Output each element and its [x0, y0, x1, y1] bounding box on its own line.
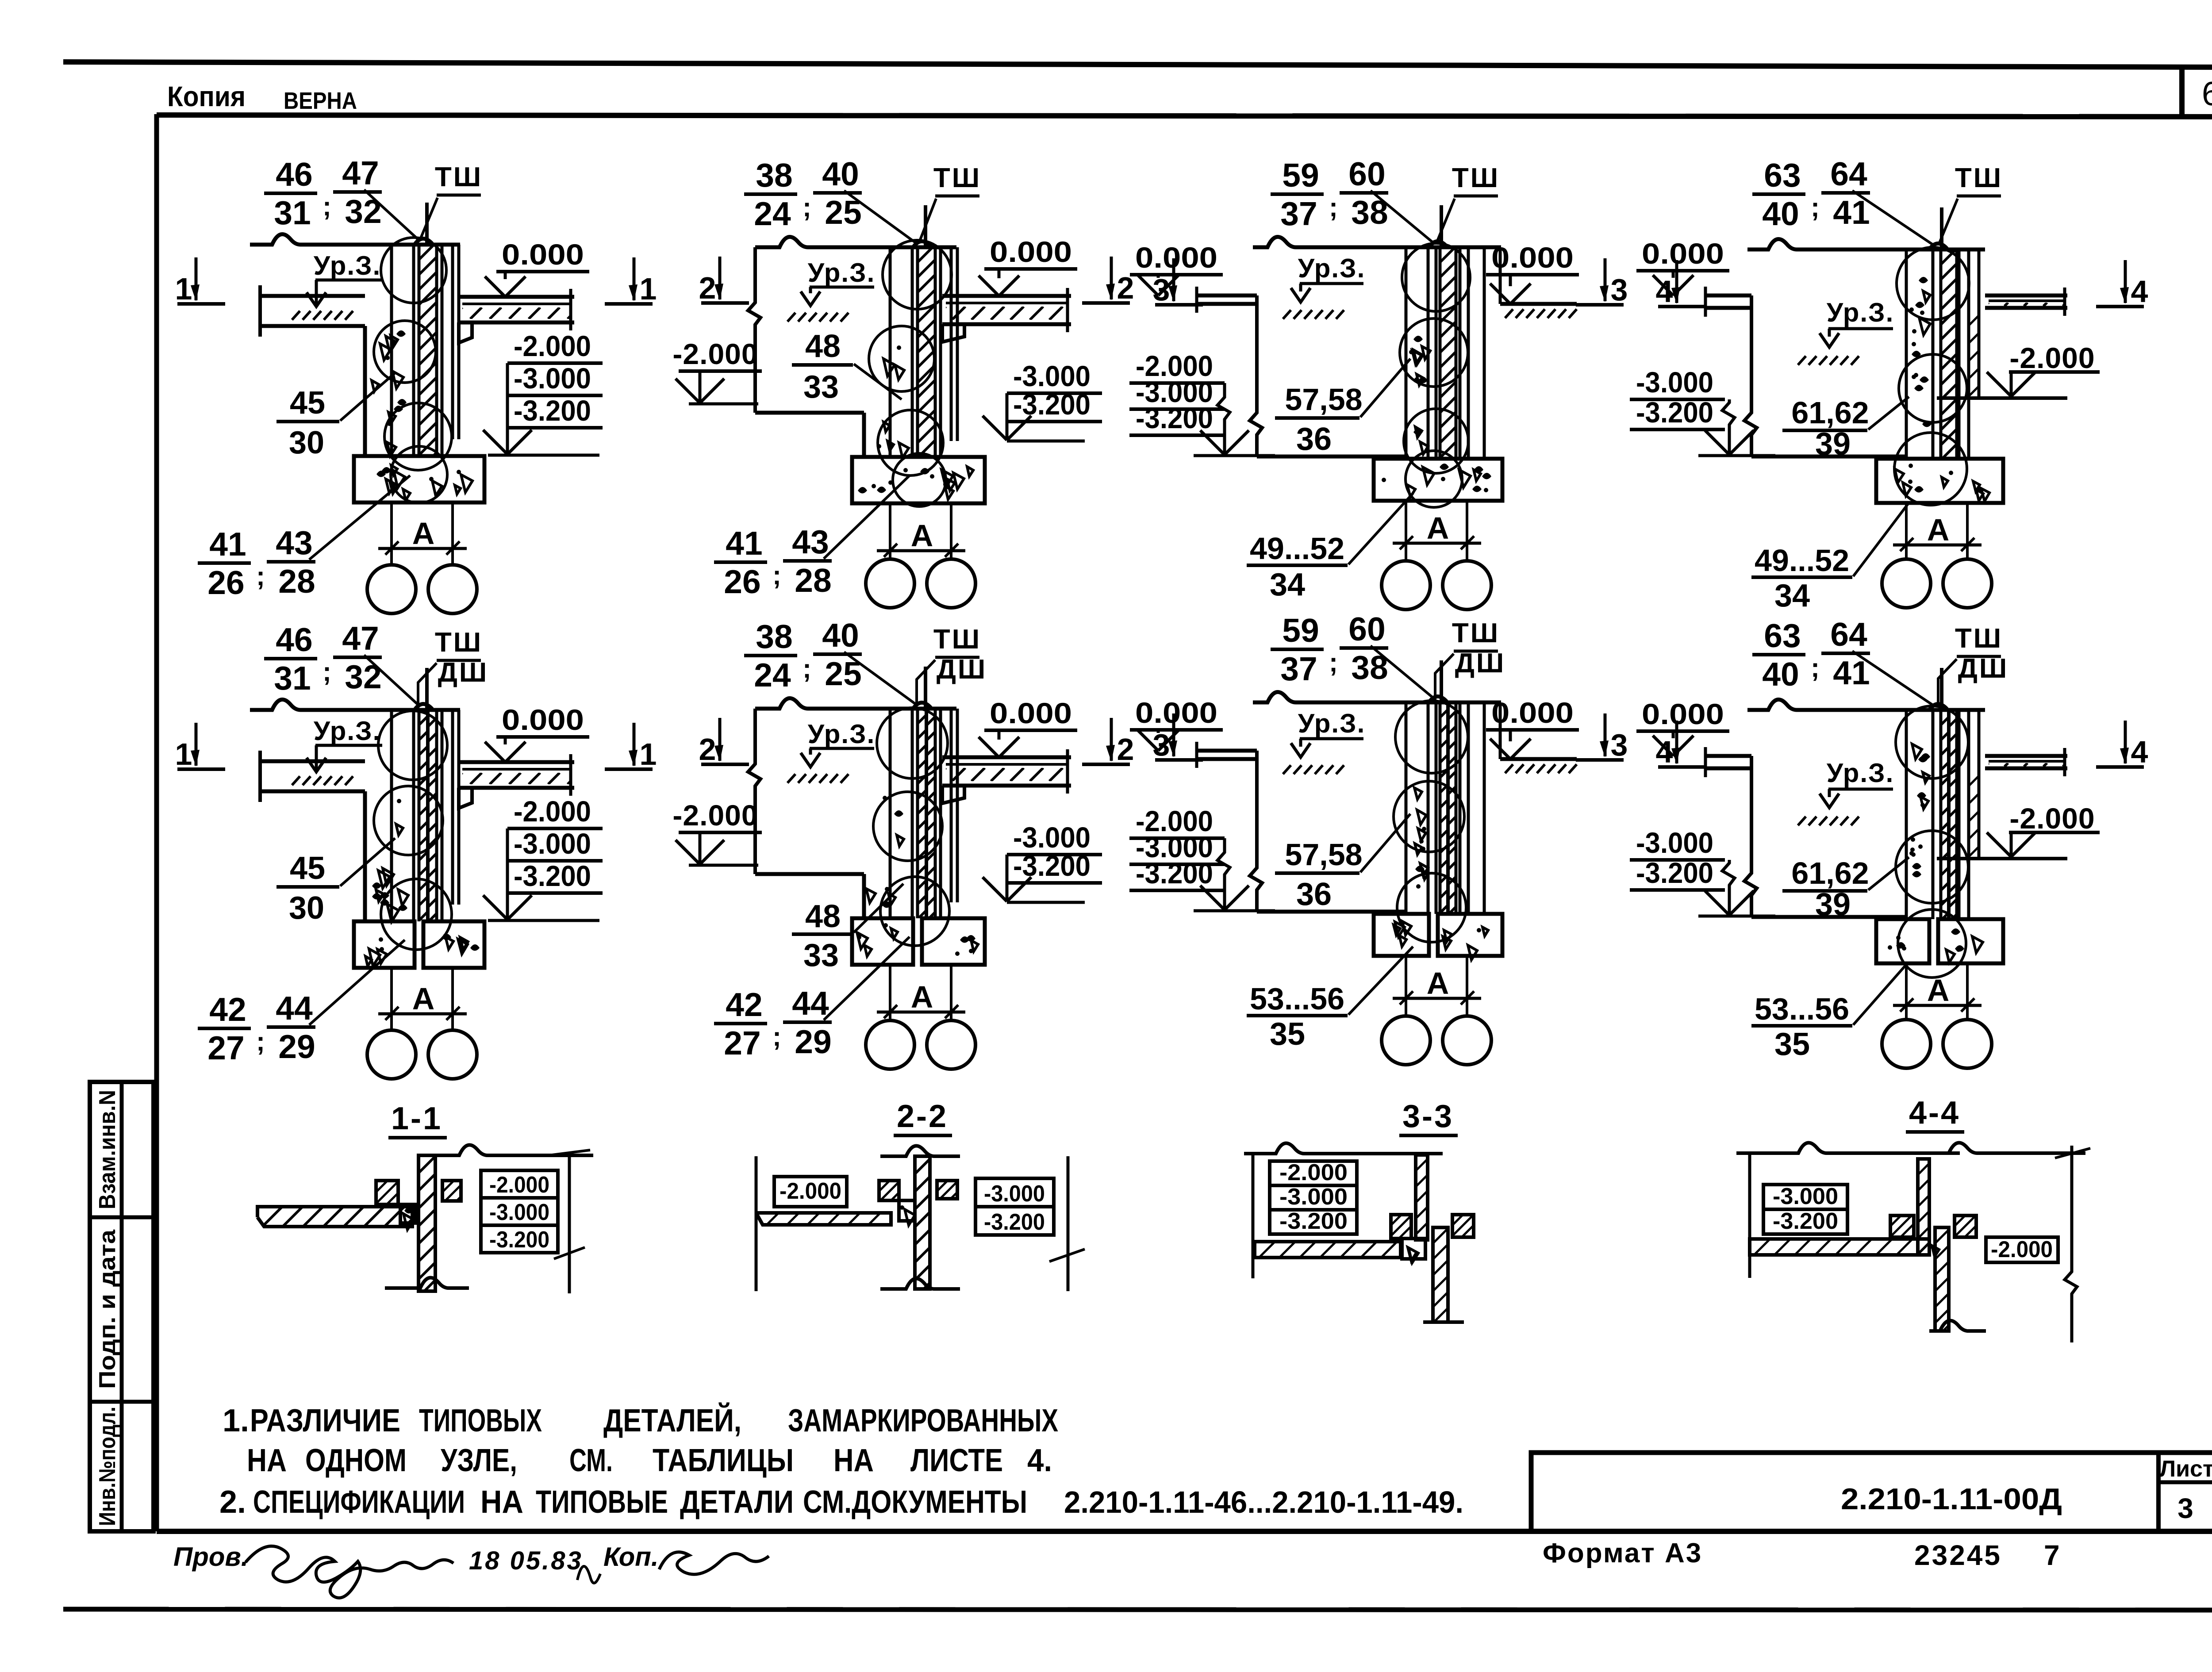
axis bubble left [1382, 561, 1430, 610]
svg-text:26: 26 [207, 564, 244, 601]
inner frame left [154, 114, 159, 1531]
svg-text:2: 2 [699, 271, 716, 305]
svg-text:Копия: Копия [167, 81, 246, 112]
footing block [354, 921, 415, 968]
right floor slab [459, 760, 574, 764]
svg-text:46: 46 [276, 156, 312, 193]
detail bubbles [1897, 247, 1969, 320]
svg-text:Формат А3: Формат А3 [1543, 1538, 1702, 1568]
svg-text:Инв.№подл.: Инв.№подл. [95, 1407, 120, 1526]
svg-text:Ур.З.: Ур.З. [314, 716, 381, 746]
axis bubble right [1943, 1020, 1992, 1068]
wall panel lines [390, 245, 393, 456]
right ground line [1500, 757, 1577, 761]
svg-text:ТШ: ТШ [1452, 618, 1500, 648]
svg-text:60: 60 [1348, 610, 1385, 648]
right ground line [1500, 302, 1577, 306]
svg-text:;: ; [772, 560, 781, 590]
svg-text:53...56: 53...56 [1250, 982, 1344, 1016]
svg-text:ТИПОВЫЕ: ТИПОВЫЕ [536, 1484, 668, 1520]
right floor slab [1985, 754, 2067, 758]
dimension A line [1393, 542, 1481, 545]
svg-text:А: А [1427, 966, 1449, 1001]
svg-text:-2.000: -2.000 [780, 1178, 841, 1204]
svg-text:2-2: 2-2 [897, 1099, 948, 1134]
svg-text:49...52: 49...52 [1755, 543, 1849, 578]
slab bar [1750, 1239, 1929, 1255]
svg-text:59: 59 [1282, 612, 1319, 649]
svg-text:4: 4 [2131, 274, 2148, 309]
svg-text:24: 24 [754, 656, 791, 694]
dimension A line [877, 1011, 965, 1014]
detail bubbles [381, 238, 446, 303]
svg-text:40: 40 [1762, 195, 1799, 232]
left basement box [1250, 295, 1262, 456]
detail bubbles [877, 708, 948, 778]
footing block [852, 918, 913, 965]
svg-text:Ур.З.: Ур.З. [314, 251, 381, 280]
axis bubble right [428, 1030, 477, 1079]
svg-text:0.000: 0.000 [1642, 698, 1724, 730]
svg-text:45: 45 [290, 851, 325, 886]
svg-text:-2.000: -2.000 [672, 799, 758, 832]
svg-text:0.000: 0.000 [502, 703, 584, 736]
svg-text:А: А [911, 518, 933, 553]
svg-text:-3.000: -3.000 [1013, 821, 1091, 854]
node: top break line [1747, 699, 1985, 710]
ground hatch [292, 776, 300, 785]
axis line right [1966, 503, 1969, 560]
svg-text:ТШ: ТШ [1955, 163, 2003, 193]
svg-text:32: 32 [345, 193, 381, 230]
svg-text:0.000: 0.000 [502, 238, 584, 271]
svg-text:1: 1 [640, 737, 657, 771]
leader line [418, 663, 437, 708]
footing block [1876, 919, 1929, 963]
svg-text:39: 39 [1815, 426, 1851, 462]
left thin slab [1705, 754, 1751, 758]
detail bubbles [883, 240, 952, 309]
leader line [917, 660, 935, 706]
svg-text:СПЕЦИФИКАЦИИ: СПЕЦИФИКАЦИИ [253, 1484, 465, 1520]
section 1-1 top wall break [419, 1145, 593, 1155]
wall hatched leaf [916, 709, 919, 918]
svg-text:-3.200: -3.200 [1636, 856, 1713, 889]
axis line left [1905, 963, 1908, 1020]
svg-text:27: 27 [724, 1024, 760, 1062]
concrete basement wall [1416, 884, 1421, 889]
svg-text:ДШ: ДШ [1958, 653, 2008, 684]
wall hatched leaf [1439, 702, 1442, 914]
svg-text:;: ; [803, 192, 811, 222]
svg-text:3-3: 3-3 [1402, 1099, 1454, 1134]
svg-text:41: 41 [209, 525, 246, 563]
svg-text:64: 64 [1830, 155, 1867, 192]
footing block [354, 456, 484, 502]
svg-text:ДЕТАЛЕЙ,: ДЕТАЛЕЙ, [603, 1402, 741, 1438]
axis line right [451, 968, 454, 1031]
section marks [1675, 721, 1678, 763]
level -2.000 line right [1937, 857, 2067, 860]
leader line [1437, 199, 1455, 242]
left floor band [260, 294, 365, 298]
leader line [1853, 504, 1908, 576]
svg-text:Ур.З.: Ур.З. [1298, 253, 1366, 283]
leader line [1360, 359, 1410, 417]
svg-text:48: 48 [805, 329, 841, 364]
left basement box [748, 247, 760, 413]
left thin slab [1705, 294, 1751, 298]
deformation joint gap [426, 710, 428, 921]
detail bubbles [1395, 701, 1468, 773]
wall panel lines [889, 247, 892, 457]
svg-text:-2.000: -2.000 [1279, 1160, 1348, 1185]
svg-text:-3.200: -3.200 [1013, 388, 1091, 421]
svg-text:-3.200: -3.200 [984, 1209, 1045, 1235]
wall panel lines [889, 709, 892, 918]
svg-text:45: 45 [290, 385, 325, 421]
svg-text:27: 27 [207, 1029, 244, 1066]
svg-text:;: ; [256, 1027, 265, 1056]
wall strip [880, 1146, 960, 1156]
dimension A line [378, 1012, 467, 1016]
svg-text:7: 7 [2044, 1539, 2060, 1571]
joint sealant cap [1429, 696, 1447, 702]
svg-text:34: 34 [1270, 567, 1305, 602]
svg-text:-3.000: -3.000 [514, 827, 591, 860]
corbel [942, 324, 964, 342]
svg-text:;: ; [772, 1022, 781, 1051]
leader line [1868, 857, 1909, 890]
page number box divider [2179, 65, 2185, 117]
ground hatch [292, 311, 300, 320]
left floor band [260, 759, 365, 763]
svg-text:А: А [1427, 511, 1449, 545]
grout square [400, 1204, 415, 1223]
svg-text:4: 4 [1656, 274, 1673, 309]
axis bubble left [367, 1030, 416, 1079]
-2.000 box [1986, 1237, 2058, 1262]
svg-text:Ур.З.: Ур.З. [1827, 758, 1894, 788]
top line with bumps [1736, 1143, 1960, 1153]
svg-text:Ур.З.: Ур.З. [808, 719, 876, 749]
svg-text:ТШ: ТШ [435, 162, 483, 192]
svg-text:Подп. и дата: Подп. и дата [95, 1229, 120, 1389]
leader line [1435, 654, 1454, 700]
corbel [459, 322, 472, 343]
svg-text:;: ; [323, 657, 331, 686]
leader line [824, 476, 910, 559]
svg-text:-3.000: -3.000 [1279, 1184, 1348, 1210]
svg-text:ТШ: ТШ [1955, 623, 2003, 654]
svg-text:ЛИСТЕ: ЛИСТЕ [910, 1443, 1003, 1478]
node: top break line [755, 698, 956, 709]
leader line [1371, 191, 1433, 243]
right dim line [568, 1152, 571, 1293]
svg-text:-3.200: -3.200 [514, 859, 591, 892]
svg-text:35: 35 [1774, 1027, 1810, 1062]
wall hatched leaf [418, 245, 421, 456]
node: top break line [1253, 692, 1501, 702]
left basement box [1744, 756, 1757, 917]
svg-text:-2.000: -2.000 [672, 337, 758, 370]
axis line right [1466, 956, 1468, 1016]
svg-text:44: 44 [792, 985, 829, 1022]
svg-text:НА: НА [833, 1443, 874, 1478]
concrete basement wall [1918, 844, 1923, 849]
svg-text:ТШ: ТШ [435, 627, 483, 658]
svg-text:;: ; [1329, 648, 1338, 677]
deformation joint gap [1947, 710, 1949, 919]
section marks [1172, 258, 1175, 301]
svg-text:ТШ: ТШ [933, 163, 981, 193]
svg-text:37: 37 [1280, 195, 1317, 232]
svg-text:-2.000: -2.000 [514, 795, 591, 828]
svg-text:42: 42 [209, 991, 246, 1028]
svg-text:31: 31 [274, 660, 311, 697]
section mark right [633, 257, 636, 300]
right floor slab [459, 295, 574, 299]
axis line left [889, 503, 891, 560]
axis line left [1905, 503, 1908, 560]
rotated label Inv.Npodl. [95, 1407, 120, 1526]
section mark left [195, 257, 198, 300]
svg-text:64: 64 [1830, 616, 1867, 653]
svg-text:2.: 2. [219, 1484, 246, 1520]
svg-text:-2.000: -2.000 [2009, 802, 2095, 835]
svg-text:Коп.: Коп. [603, 1542, 659, 1572]
top line with bump [1244, 1143, 1443, 1154]
svg-text:59: 59 [1282, 157, 1319, 194]
svg-text:44: 44 [276, 989, 313, 1027]
svg-text:36: 36 [1296, 877, 1332, 912]
svg-text:43: 43 [792, 523, 829, 560]
section marks [1675, 260, 1678, 303]
axis line left [1405, 501, 1407, 561]
axis line right [950, 503, 952, 560]
signature squiggle Yakin [659, 1552, 769, 1574]
left thin slab [1197, 294, 1257, 298]
dimension A line [378, 547, 467, 550]
wall panel lines [1905, 710, 1908, 919]
svg-text:30: 30 [289, 890, 324, 926]
svg-text:40: 40 [822, 155, 859, 192]
right wall face lines [1483, 247, 1486, 459]
svg-text:4: 4 [2131, 735, 2148, 769]
svg-text:41: 41 [726, 525, 762, 562]
svg-text:61,62: 61,62 [1791, 395, 1869, 430]
axis bubble right [1443, 1016, 1491, 1065]
leader line [854, 884, 903, 932]
leader line [1939, 199, 1958, 244]
joint sealant cap [913, 241, 931, 247]
dimension A line [877, 549, 965, 552]
bottom wavy break [385, 1277, 469, 1288]
axis line left [390, 968, 393, 1031]
leader line [844, 191, 916, 243]
svg-text:53...56: 53...56 [1755, 992, 1849, 1026]
svg-text:-3.000: -3.000 [1636, 366, 1713, 399]
svg-text:ДШ: ДШ [438, 657, 488, 688]
svg-text:НА: НА [247, 1443, 287, 1478]
svg-text:63: 63 [1764, 617, 1801, 654]
slab bar [1255, 1242, 1401, 1258]
right dim line [1067, 1156, 1070, 1291]
rotated label Vzam.inv.N [95, 1090, 120, 1209]
svg-text:33: 33 [803, 369, 839, 405]
right wall to -2.000 [1978, 249, 1981, 398]
axis line left [1405, 956, 1407, 1016]
deformation joint gap [925, 709, 926, 918]
right floor slab [1985, 294, 2067, 298]
ground hatch left [787, 774, 795, 783]
leader line [1868, 397, 1909, 430]
svg-text:6: 6 [2202, 75, 2212, 113]
svg-text:-3.200: -3.200 [1636, 396, 1713, 429]
leader line [1852, 651, 1933, 705]
svg-text:28: 28 [795, 562, 831, 599]
wall hatched leaf [418, 710, 421, 921]
svg-text:-3.000: -3.000 [514, 362, 591, 395]
elevation table [1763, 1185, 1847, 1209]
svg-text:31: 31 [274, 194, 311, 231]
foundation pier [862, 874, 866, 918]
leader line [364, 655, 419, 706]
axis bubble left [1882, 1020, 1931, 1068]
svg-text:2.210-1.11-00Д: 2.210-1.11-00Д [1841, 1482, 2062, 1516]
svg-text:49...52: 49...52 [1250, 531, 1344, 566]
wall hatched leaf [1939, 710, 1943, 919]
svg-text:1: 1 [175, 272, 192, 306]
axis line left [889, 965, 891, 1021]
corbel [942, 786, 964, 803]
leader line [1938, 659, 1957, 707]
svg-text:А: А [911, 980, 933, 1014]
svg-text:Лист: Лист [2160, 1456, 2212, 1482]
svg-text:ОДНОМ: ОДНОМ [305, 1443, 407, 1478]
svg-text:48: 48 [805, 899, 841, 934]
svg-text:-2.000: -2.000 [514, 330, 591, 362]
leader line [919, 199, 936, 242]
svg-text:А: А [1927, 513, 1950, 547]
svg-text:;: ; [256, 561, 265, 591]
section mark right [633, 723, 636, 766]
svg-text:37: 37 [1280, 650, 1317, 687]
stamp column boxes [90, 1082, 154, 1531]
svg-text:-3.000: -3.000 [489, 1200, 549, 1225]
svg-text:57,58: 57,58 [1285, 837, 1362, 872]
top inner frame line [157, 115, 2212, 117]
svg-text:35: 35 [1270, 1016, 1305, 1052]
svg-text:47: 47 [342, 154, 379, 192]
svg-text:ТАБЛИЦЫ: ТАБЛИЦЫ [653, 1443, 794, 1478]
footing block [1876, 459, 2003, 503]
dimension A line [1893, 1004, 1982, 1007]
svg-text:;: ; [323, 192, 331, 221]
svg-text:4-4: 4-4 [1909, 1095, 1960, 1131]
svg-text:0.000: 0.000 [1642, 237, 1724, 270]
leader line [1348, 947, 1413, 1015]
svg-text:1: 1 [175, 737, 192, 771]
svg-text:23245: 23245 [1914, 1539, 2002, 1571]
svg-text:;: ; [1329, 192, 1338, 222]
svg-text:3: 3 [1611, 272, 1628, 307]
right floor slab [942, 755, 1071, 759]
joint sealant cap [415, 704, 432, 710]
left slab bar [756, 1213, 891, 1225]
svg-text:34: 34 [1774, 578, 1810, 614]
wall panel lines [1405, 247, 1408, 459]
axis line right [950, 965, 952, 1021]
svg-text:26: 26 [724, 563, 760, 600]
leader line [854, 364, 902, 399]
corbel [459, 788, 472, 808]
svg-text:39: 39 [1815, 887, 1851, 922]
axis bubble left [866, 559, 914, 608]
dimension A line [1393, 997, 1481, 1000]
svg-text:ТИПОВЫХ: ТИПОВЫХ [419, 1403, 542, 1438]
axis bubble right [428, 565, 477, 614]
inner frame bottom [157, 1529, 2212, 1534]
detail bubbles [378, 711, 447, 780]
section marks [1172, 713, 1175, 756]
svg-text:СМ.: СМ. [569, 1443, 613, 1478]
detail bubbles [1896, 706, 1968, 778]
section mark left [195, 723, 198, 766]
svg-text:ДШ: ДШ [1455, 648, 1505, 679]
svg-text:ДШ: ДШ [937, 654, 987, 685]
svg-text:1: 1 [640, 272, 657, 306]
right wall face lines [1483, 702, 1486, 914]
leader line [1852, 191, 1933, 245]
svg-text:61,62: 61,62 [1791, 856, 1869, 890]
svg-text:43: 43 [276, 524, 312, 561]
wall hatched leaf [916, 247, 919, 457]
svg-text:ЗАМАРКИРОВАННЫХ: ЗАМАРКИРОВАННЫХ [788, 1403, 1058, 1438]
svg-text:0.000: 0.000 [990, 697, 1072, 729]
svg-text:-3.200: -3.200 [514, 394, 591, 427]
svg-text:18 05.83: 18 05.83 [469, 1546, 583, 1575]
footing block [1374, 914, 1429, 956]
elevation table [975, 1178, 1054, 1207]
svg-text:32: 32 [345, 658, 381, 695]
svg-text:0.000: 0.000 [990, 235, 1072, 268]
footing block [852, 457, 985, 503]
right wall to -2.000 [1978, 710, 1981, 859]
level -2.000 line right [1937, 396, 2067, 400]
top outer border line [63, 62, 2212, 67]
svg-text:38: 38 [756, 618, 792, 655]
wall hatched leaf [1439, 247, 1442, 459]
svg-text:-3.000: -3.000 [984, 1181, 1045, 1207]
outer bottom border [63, 1609, 2212, 1610]
svg-text:42: 42 [726, 986, 762, 1023]
wall panel lines [1405, 702, 1408, 914]
leader line [340, 838, 395, 886]
svg-text:СМ.ДОКУМЕНТЫ: СМ.ДОКУМЕНТЫ [803, 1484, 1027, 1520]
svg-text:УЗЛЕ,: УЗЛЕ, [441, 1443, 517, 1478]
svg-text:-3.000: -3.000 [1636, 826, 1713, 859]
concrete basement wall [1909, 307, 1914, 312]
svg-text:36: 36 [1296, 422, 1332, 457]
axis bubble left [367, 565, 416, 614]
svg-text:29: 29 [795, 1023, 831, 1060]
svg-text:ТШ: ТШ [1452, 163, 1500, 193]
elevation table [1270, 1161, 1357, 1185]
node: top break line [755, 237, 956, 247]
svg-text:4.: 4. [1027, 1443, 1052, 1478]
svg-text:Взам.инв.N: Взам.инв.N [95, 1090, 120, 1209]
